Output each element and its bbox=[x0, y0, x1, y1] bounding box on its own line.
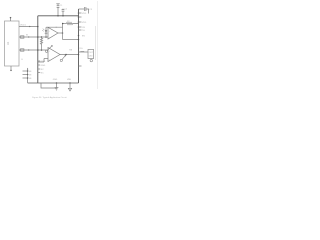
junction dot bus y22 bbox=[78, 21, 80, 23]
pin tick y30 bbox=[79, 29, 82, 31]
svg-text:GND: GND bbox=[53, 79, 58, 81]
connector J1 small box bbox=[88, 50, 94, 59]
wire gnd drop x70 bbox=[69, 83, 71, 88]
junction dot bus y13 bbox=[78, 12, 80, 14]
stub y78 bbox=[23, 77, 28, 79]
wire gate y52 bbox=[79, 51, 89, 53]
wire left gnd bus x27.6 bbox=[27, 69, 29, 83]
junction dot R1 bottom bbox=[41, 49, 43, 51]
wire bottom pin of U1 bbox=[10, 66, 12, 70]
svg-text:VDD1: VDD1 bbox=[20, 24, 27, 26]
svg-text:GND: GND bbox=[41, 65, 46, 67]
LED arrows bbox=[43, 29, 44, 30]
wire IN+ pin y37 bbox=[19, 36, 48, 38]
wire C2 bottom bbox=[62, 11, 64, 16]
wire C1 top bbox=[57, 4, 59, 6]
pin tick y13 bbox=[79, 12, 82, 14]
diode D1 bbox=[45, 30, 48, 33]
wire VDD pin y26.5 bbox=[19, 26, 38, 28]
junction dot bus y27 bbox=[78, 26, 80, 28]
wire C2 top bbox=[62, 9, 64, 10]
svg-text:VDD: VDD bbox=[82, 13, 87, 15]
arrow on VDD wire bbox=[29, 26, 31, 28]
stub y71 bbox=[23, 70, 28, 72]
junction dot x27.6 y71 bbox=[27, 70, 29, 72]
wire IN2 pin y50 bbox=[19, 49, 48, 51]
junction dot bus y17 bbox=[78, 16, 80, 18]
ferrite bead FB2 bbox=[21, 49, 24, 51]
border frame right faint bbox=[97, 1, 99, 89]
wire bottom rail y83 bbox=[28, 82, 79, 84]
junction dot at bus y26.5 bbox=[37, 26, 39, 28]
resistor R2 horizontal zigzag bbox=[67, 22, 79, 24]
junction dot C1 rail bbox=[57, 15, 59, 16]
junction dot y83 x56.5 bbox=[56, 82, 58, 84]
junction dot x27.6 y74.5 bbox=[27, 74, 29, 76]
junction dot A2 out bbox=[65, 54, 67, 56]
wire feedback top bbox=[46, 26, 63, 28]
arrow on IN wire bbox=[28, 36, 30, 38]
pin tick x38 y69 bbox=[38, 68, 40, 70]
wire gnd drop x56.5 bbox=[56, 83, 58, 88]
resistor R1 vertical zigzag bbox=[40, 37, 42, 50]
wire A1 output bbox=[58, 32, 63, 34]
pin tick y66 bbox=[79, 65, 82, 67]
wire top rail bbox=[38, 15, 79, 17]
arrow on IN2 wire bbox=[28, 49, 30, 51]
junction dot A1 out bbox=[62, 32, 64, 34]
node bottom pin dot bbox=[10, 70, 12, 72]
junction dot y83 x70 bbox=[69, 82, 71, 84]
node top pin dot bbox=[10, 17, 12, 19]
IC U1 left box bbox=[5, 21, 20, 66]
wire C1 bottom bbox=[57, 7, 59, 15]
wire right bus x78.5 bbox=[78, 9, 80, 83]
junction dot bus y39.5 bbox=[78, 39, 80, 41]
pin tick x38 y61 bbox=[38, 60, 40, 62]
photodiode P2 circle bbox=[60, 59, 62, 61]
arrow P2 bbox=[62, 55, 66, 60]
junction dot diode bottom bbox=[45, 36, 47, 38]
capacitor C2 plates bbox=[62, 9, 65, 11]
pin tick y27 bbox=[79, 26, 82, 28]
junction dot bus y35.5 bbox=[78, 35, 80, 37]
capacitor C1 flag bbox=[56, 3, 59, 5]
junction dot bus y50 bbox=[37, 49, 39, 51]
capacitor C3 plates bbox=[83, 7, 85, 11]
op-amp A1 triangle bbox=[48, 27, 58, 39]
wire left bus vertical x37.8 bbox=[37, 16, 39, 83]
junction dot bus y54.5 bbox=[78, 54, 80, 56]
pin tick x38 y65 bbox=[38, 64, 40, 66]
junction dot bus y37 bbox=[37, 36, 39, 38]
capacitor C1 plates bbox=[57, 5, 60, 7]
wire feedback to resistor bbox=[63, 23, 67, 25]
wire sub rail y88 bbox=[41, 83, 57, 88]
svg-text:RG: RG bbox=[80, 48, 83, 50]
junction dot R1 top bbox=[41, 36, 43, 38]
svg-text:VEE: VEE bbox=[67, 79, 72, 81]
stub y74.5 bbox=[23, 74, 28, 76]
pin tick y22 bbox=[79, 21, 82, 23]
junction dot feedback x62.5 bbox=[62, 23, 64, 25]
wire top pin of U1 bbox=[10, 18, 12, 21]
pin tick x38 y72.5 bbox=[38, 72, 40, 74]
junction dot C2 rail bbox=[62, 15, 64, 16]
svg-text:LED: LED bbox=[89, 56, 93, 58]
photodiode P1 circle bbox=[45, 50, 47, 52]
wire right faint vertical bbox=[95, 26, 97, 60]
svg-text:U1: U1 bbox=[6, 41, 10, 45]
wire cap C3 top bbox=[79, 8, 85, 10]
svg-text:VDD: VDD bbox=[82, 22, 87, 24]
wire C3 right bbox=[86, 9, 89, 14]
wire feedback vertical x61 bbox=[62, 24, 64, 40]
wire A2 output y54.5 bbox=[60, 54, 79, 56]
wire A2 lower input bbox=[44, 58, 48, 60]
ground GND1 bars bbox=[55, 87, 59, 89]
op-amp A2 triangle bbox=[48, 48, 60, 62]
ferrite bead FB1 bbox=[21, 36, 24, 38]
wire A1 out to bus y39.5 bbox=[63, 39, 79, 41]
pin tick y17 bbox=[79, 16, 82, 18]
wire y62 stub bbox=[38, 61, 44, 63]
inductor L1 humps bbox=[81, 50, 85, 53]
LED1 circle bbox=[90, 59, 92, 61]
svg-text:Figure 34. Typical Application: Figure 34. Typical Application Circuit bbox=[32, 96, 67, 99]
ground GND2 triangle bbox=[68, 88, 71, 91]
diode D1 wire bbox=[45, 27, 47, 37]
arrow P1 bbox=[47, 46, 52, 51]
junction dot x27.6 y78 bbox=[27, 77, 29, 79]
wire x44 stub bbox=[43, 59, 45, 63]
